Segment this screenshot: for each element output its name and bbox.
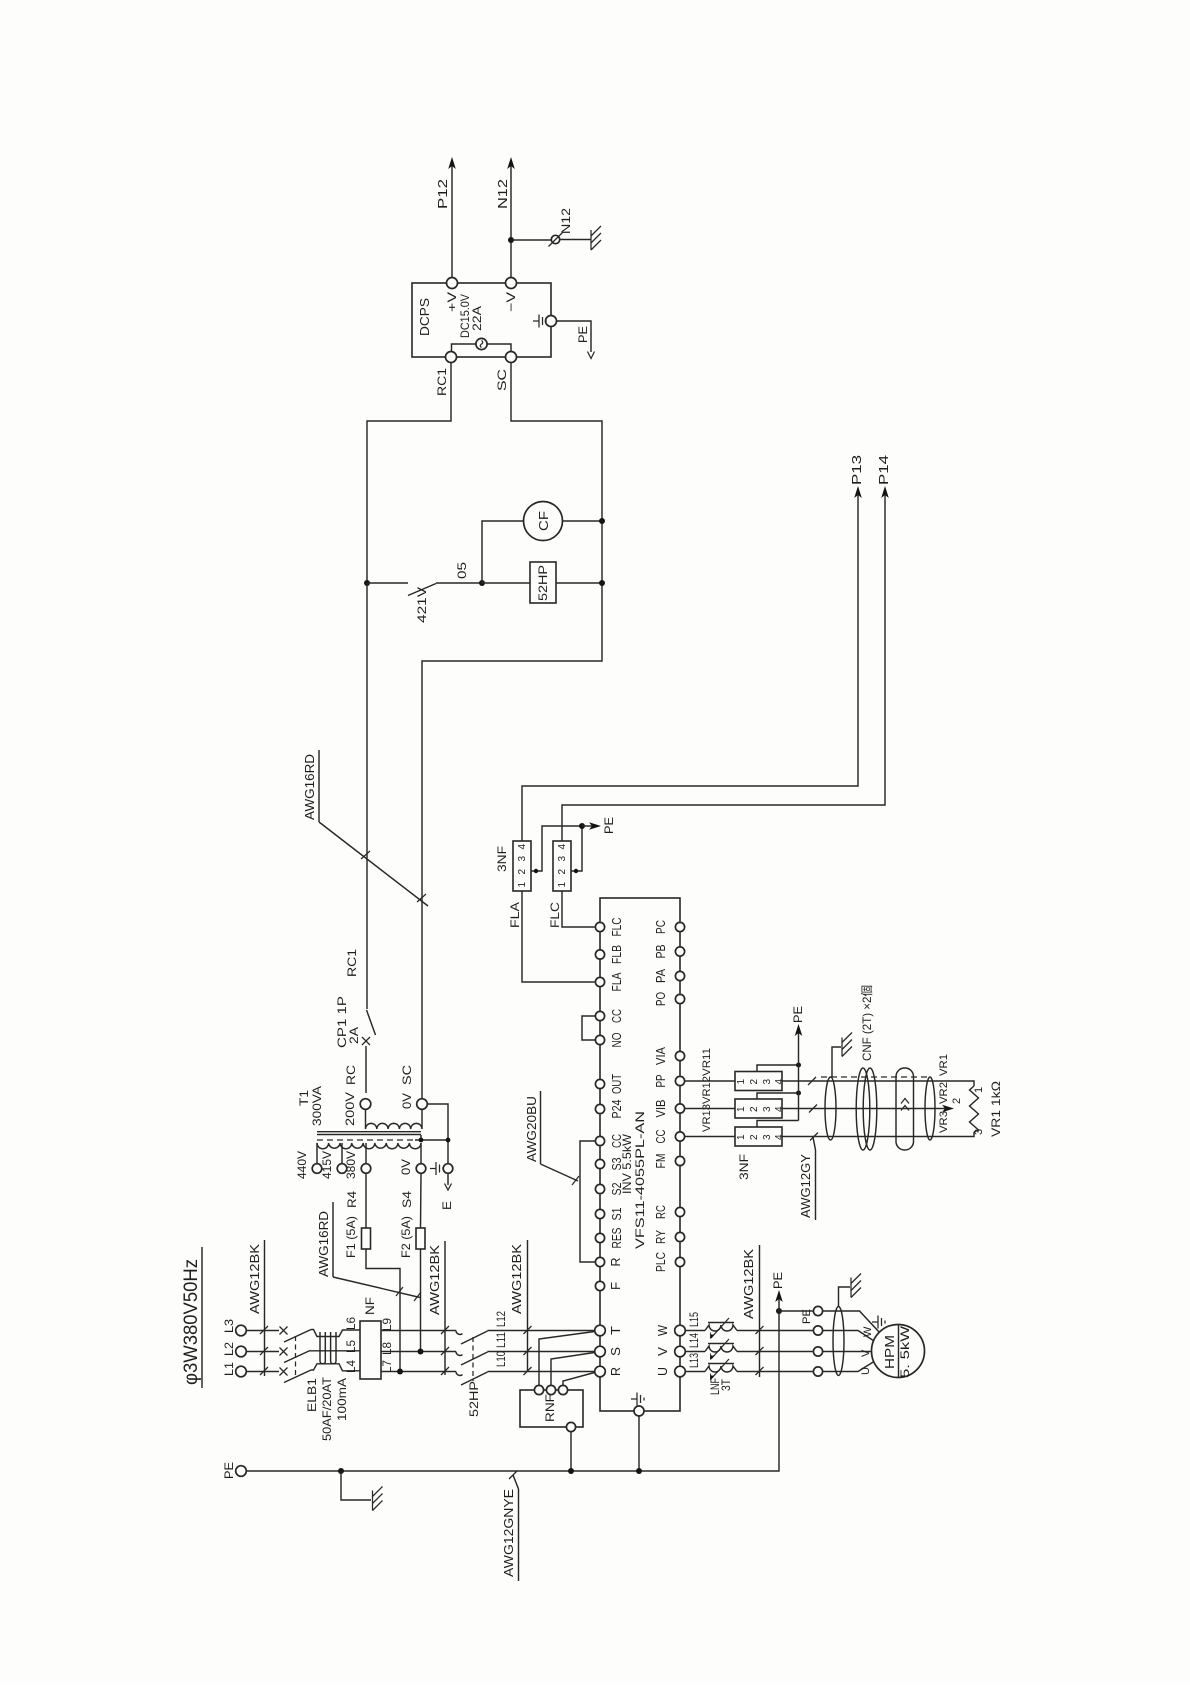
junction on N12 wire bbox=[508, 237, 514, 243]
RNF terminal 3 bbox=[558, 1385, 567, 1394]
terminal block 3NF VR13 bbox=[735, 1127, 785, 1180]
wire L9 NF to contactor bbox=[381, 1330, 456, 1332]
terminal block 3NF VR11 bbox=[735, 1072, 785, 1091]
terminal NO bbox=[595, 1032, 624, 1047]
earth symbol at bus bbox=[373, 1487, 383, 1511]
terminal PLC bbox=[654, 1252, 685, 1272]
earth terminal on DCPS bbox=[533, 315, 557, 328]
svg-text:415V: 415V bbox=[320, 1151, 334, 1179]
terminal PE bbox=[222, 1462, 246, 1479]
terminal S2 bbox=[595, 1182, 624, 1195]
junction RNF ground bbox=[568, 1468, 574, 1474]
ferrite core double ellipse bbox=[856, 1068, 877, 1150]
relay coil 52HP bbox=[530, 562, 556, 603]
inductor LNF phase W bbox=[705, 1318, 737, 1339]
wire FLA to inverter bbox=[508, 891, 595, 982]
svg-text:φ3W380V50Hz: φ3W380V50Hz bbox=[181, 1259, 202, 1385]
wire LNF to motor terminal W bbox=[737, 1330, 813, 1332]
svg-text:3: 3 bbox=[762, 1079, 773, 1085]
terminal PC bbox=[654, 920, 685, 934]
wire U to LNF bbox=[685, 1371, 705, 1373]
wire L2 to breaker bbox=[246, 1351, 279, 1353]
svg-text:L6: L6 bbox=[344, 1317, 358, 1330]
pin2 hook FLC block bbox=[571, 826, 582, 873]
wire label AWG16RD upper bbox=[302, 750, 428, 906]
junction tap R4 on L7 bbox=[397, 1369, 403, 1375]
terminal SC bbox=[495, 352, 517, 392]
tap 0V primary bbox=[399, 1159, 426, 1175]
earth branch wire bbox=[341, 1471, 371, 1500]
RNF ground terminal bbox=[566, 1422, 575, 1471]
svg-text:P12: P12 bbox=[435, 179, 450, 209]
svg-text:VFS11-4055PL-AN: VFS11-4055PL-AN bbox=[633, 1111, 647, 1249]
wire node to 52HP coil bbox=[482, 582, 530, 584]
wire VR3 bbox=[782, 1132, 974, 1137]
svg-text:S2: S2 bbox=[610, 1182, 624, 1195]
primary winding bbox=[317, 1143, 421, 1149]
svg-text:CC: CC bbox=[654, 1130, 668, 1144]
svg-text:P14: P14 bbox=[876, 455, 891, 485]
svg-text:N12: N12 bbox=[559, 208, 573, 234]
svg-text:SC: SC bbox=[495, 369, 509, 391]
terminal PA bbox=[654, 968, 685, 983]
svg-text:FLA: FLA bbox=[508, 902, 522, 928]
PE drop wire with junction bbox=[776, 1308, 813, 1314]
wire L1 to breaker bbox=[246, 1371, 279, 1373]
svg-text:P24: P24 bbox=[610, 1099, 624, 1118]
RNF wire to T bbox=[539, 1332, 595, 1386]
svg-text:P13: P13 bbox=[849, 455, 864, 485]
terminal R power bbox=[595, 1366, 623, 1377]
pin2 hook block VR12 bbox=[757, 1091, 801, 1100]
junction earth branch bbox=[338, 1468, 344, 1474]
svg-text:2: 2 bbox=[557, 869, 568, 875]
terminal L1 bbox=[222, 1362, 246, 1377]
wire L2 through CT bbox=[310, 1350, 360, 1352]
svg-text:S4: S4 bbox=[400, 1191, 414, 1208]
breaker ELB1 pole L2 bbox=[280, 1348, 311, 1363]
svg-text:05: 05 bbox=[455, 562, 469, 579]
SECTION: fan circuit bbox=[364, 502, 605, 624]
svg-text:E: E bbox=[440, 1201, 454, 1210]
svg-text:421V: 421V bbox=[415, 587, 429, 623]
fuse F1 bbox=[344, 1173, 400, 1371]
earth symbol at N12 bbox=[591, 226, 601, 250]
svg-text:FLC: FLC bbox=[610, 918, 624, 937]
breaker linkage dashed bbox=[295, 1336, 297, 1376]
terminal V bbox=[656, 1346, 685, 1357]
shield dashed line bbox=[317, 1139, 415, 1141]
wire label AWG12BK third bbox=[509, 1240, 532, 1375]
svg-text:AWG12BK: AWG12BK bbox=[509, 1244, 524, 1314]
svg-text:CF: CF bbox=[536, 511, 551, 531]
svg-text:380V: 380V bbox=[344, 1151, 358, 1179]
terminal S3 bbox=[595, 1157, 624, 1170]
secondary winding bbox=[366, 1109, 423, 1129]
wire P14 from FLC block pin4 bbox=[562, 455, 891, 841]
terminal RC bbox=[654, 1205, 685, 1219]
radio noise filter RNF box bbox=[520, 1390, 583, 1427]
svg-text:100mA: 100mA bbox=[335, 1378, 349, 1421]
screw terminal N12 bbox=[549, 208, 574, 247]
junction at CF right bbox=[599, 518, 605, 524]
contactor 52HP pole T bbox=[456, 1331, 488, 1345]
svg-text:1: 1 bbox=[736, 1106, 747, 1112]
svg-text:U: U bbox=[656, 1367, 670, 1376]
label ELB1 ratings bbox=[305, 1376, 349, 1441]
junction inverter ground bbox=[636, 1468, 642, 1474]
svg-text:VIB: VIB bbox=[654, 1100, 668, 1118]
terminal PB bbox=[654, 945, 685, 959]
svg-text:0V: 0V bbox=[400, 1093, 414, 1109]
label LNF 3T bbox=[708, 1378, 733, 1395]
RNF terminal 2 bbox=[546, 1385, 555, 1394]
svg-text:3NF: 3NF bbox=[495, 846, 509, 872]
motor terminal V bbox=[813, 1347, 822, 1356]
terminal F bbox=[595, 1281, 623, 1290]
svg-text:2: 2 bbox=[517, 869, 528, 875]
svg-text:VR11: VR11 bbox=[701, 1048, 713, 1076]
svg-text:PB: PB bbox=[654, 945, 668, 959]
wire N12 with arrow bbox=[495, 157, 515, 278]
wire to earth bbox=[560, 239, 591, 241]
wire to N12 screw terminal bbox=[511, 239, 552, 241]
wire label AWG12BK motor bbox=[741, 1245, 764, 1377]
svg-text:3: 3 bbox=[557, 856, 568, 862]
svg-text:NO: NO bbox=[610, 1032, 624, 1047]
noise filter NF box bbox=[360, 1297, 381, 1379]
svg-text:V: V bbox=[656, 1346, 670, 1356]
svg-text:FLC: FLC bbox=[548, 902, 562, 928]
wire L10 to inverter R bbox=[488, 1371, 595, 1373]
SECTION: title bbox=[181, 1247, 202, 1388]
svg-text:L14: L14 bbox=[687, 1333, 701, 1348]
terminal CC analog bbox=[654, 1130, 685, 1144]
PE stub from DCPS earth bbox=[557, 321, 595, 359]
svg-text:ELB1: ELB1 bbox=[305, 1378, 319, 1412]
terminal 0V secondary bbox=[400, 1093, 427, 1109]
svg-text:L8: L8 bbox=[380, 1342, 394, 1355]
svg-text:3: 3 bbox=[517, 856, 528, 862]
svg-text:L12: L12 bbox=[494, 1311, 508, 1327]
svg-text:U: U bbox=[860, 1367, 872, 1375]
svg-text:+V: +V bbox=[445, 292, 459, 312]
label T1 300VA bbox=[297, 1086, 324, 1126]
motor terminal W bbox=[813, 1326, 822, 1335]
wire V into motor bbox=[823, 1351, 872, 1353]
circuit protector CP1 1P 2A bbox=[335, 583, 376, 1093]
earth symbol at motor cable bbox=[851, 1274, 861, 1298]
inductor LNF phase V bbox=[705, 1339, 737, 1360]
RNF wire to S bbox=[551, 1353, 595, 1386]
svg-text:CC: CC bbox=[610, 1134, 624, 1148]
breaker ELB1 pole L1 bbox=[280, 1368, 312, 1383]
svg-text:3NF: 3NF bbox=[737, 1154, 751, 1180]
svg-text:S3: S3 bbox=[610, 1157, 624, 1170]
svg-text:PLC: PLC bbox=[654, 1252, 668, 1272]
svg-text:CC: CC bbox=[610, 1009, 624, 1023]
svg-text:FLB: FLB bbox=[610, 945, 624, 964]
svg-text:AWG12BK: AWG12BK bbox=[741, 1249, 756, 1319]
earth terminal E of inverter bbox=[631, 1393, 644, 1472]
contactor linkage dashed bbox=[472, 1337, 474, 1381]
wire L3 through CT bbox=[311, 1330, 360, 1337]
svg-text:FM: FM bbox=[654, 1154, 668, 1169]
fuse F2 bbox=[399, 1173, 425, 1351]
terminal S bbox=[595, 1346, 623, 1357]
svg-text:L4: L4 bbox=[344, 1360, 358, 1373]
terminal 200V bbox=[343, 1092, 371, 1126]
PE arrow at blocks bbox=[579, 817, 616, 834]
wire P12 with arrow bbox=[435, 157, 456, 278]
node 421V junction bbox=[364, 580, 370, 586]
svg-text:PC: PC bbox=[654, 920, 668, 934]
contactor 52HP pole R bbox=[456, 1372, 488, 1386]
shield dashed drain bbox=[821, 1076, 927, 1078]
svg-text:AWG16RD: AWG16RD bbox=[302, 754, 317, 820]
svg-text:R4: R4 bbox=[345, 1191, 359, 1208]
terminal L2 bbox=[222, 1342, 246, 1357]
wire up to fan CF bbox=[482, 521, 524, 583]
wire LNF to motor terminal U bbox=[737, 1371, 813, 1373]
svg-text:OUT: OUT bbox=[610, 1074, 624, 1094]
svg-text:N12: N12 bbox=[495, 179, 510, 209]
svg-text:VR2: VR2 bbox=[938, 1082, 950, 1104]
earth symbol at cable bbox=[842, 1033, 852, 1057]
terminal W bbox=[656, 1325, 685, 1336]
wire PP to block bbox=[685, 1080, 735, 1082]
svg-text:L11: L11 bbox=[494, 1332, 508, 1348]
motor frame earth symbol bbox=[872, 1316, 885, 1329]
contactor 52HP pole S bbox=[456, 1352, 488, 1366]
wire switch to node bbox=[436, 582, 482, 584]
svg-text:PO: PO bbox=[654, 992, 668, 1006]
svg-text:NF: NF bbox=[363, 1297, 377, 1315]
svg-text:L9: L9 bbox=[380, 1318, 394, 1331]
svg-text:PE: PE bbox=[576, 326, 590, 343]
wire CF to right leg bbox=[563, 520, 603, 522]
svg-text:0V: 0V bbox=[399, 1159, 413, 1175]
terminal -V bbox=[504, 278, 518, 313]
motor terminal PE bbox=[801, 1306, 823, 1324]
wire L3 to breaker bbox=[246, 1330, 279, 1332]
svg-text:RC: RC bbox=[654, 1205, 668, 1219]
shield earth wire bbox=[832, 1047, 841, 1077]
terminal FLB bbox=[595, 945, 624, 964]
svg-text:52HP: 52HP bbox=[536, 565, 550, 601]
terminal OUT bbox=[595, 1074, 624, 1094]
breaker ELB1 pole L3 bbox=[280, 1327, 312, 1343]
svg-text:2: 2 bbox=[749, 1106, 760, 1112]
svg-text:AWG12BK: AWG12BK bbox=[247, 1244, 262, 1314]
inductor LNF phase U bbox=[705, 1359, 737, 1380]
wire 52HP coil to right leg bbox=[556, 582, 602, 584]
wire CC to block bbox=[685, 1136, 735, 1138]
core and shield to earth wire bbox=[415, 1104, 450, 1164]
AC source symbol inside DCPS bbox=[452, 338, 512, 351]
svg-text:VR3: VR3 bbox=[938, 1111, 950, 1133]
svg-text:2: 2 bbox=[749, 1079, 760, 1085]
fan CF bbox=[524, 502, 563, 541]
SECTION: motor bbox=[685, 1245, 924, 1395]
terminal PO bbox=[654, 992, 685, 1006]
svg-text:3: 3 bbox=[762, 1106, 773, 1112]
svg-text:PA: PA bbox=[654, 968, 668, 983]
svg-text:1: 1 bbox=[557, 882, 568, 888]
terminal L3 bbox=[222, 1319, 246, 1336]
wire VR2 to wiper bbox=[782, 1098, 963, 1112]
svg-text:3T: 3T bbox=[719, 1378, 733, 1391]
wire PE into motor bbox=[823, 1311, 880, 1333]
RNF wire to R bbox=[563, 1373, 595, 1386]
PE arrow at bus end bbox=[771, 1272, 785, 1302]
svg-text:300VA: 300VA bbox=[310, 1086, 324, 1126]
wire W to LNF bbox=[685, 1330, 705, 1332]
svg-text:RNF: RNF bbox=[543, 1394, 557, 1422]
SECTION: pot and cable bbox=[685, 985, 1003, 1220]
svg-text:52HP: 52HP bbox=[467, 1381, 481, 1417]
svg-text:L13: L13 bbox=[687, 1353, 701, 1368]
ferrite core stadium bbox=[896, 1068, 914, 1150]
svg-text:22A: 22A bbox=[470, 306, 484, 331]
wire SC down right leg bbox=[422, 363, 602, 1099]
wire FLC to inverter bbox=[548, 891, 595, 928]
SECTION: pe bus bbox=[222, 1272, 785, 1581]
terminal P24 bbox=[595, 1099, 624, 1118]
svg-text:L15: L15 bbox=[687, 1312, 701, 1327]
wire P13 from FLA block pin4 bbox=[522, 455, 864, 841]
svg-text:RC1: RC1 bbox=[435, 368, 449, 396]
terminal R run bbox=[595, 1257, 623, 1266]
wire label AWG16RD lower bbox=[316, 1202, 421, 1301]
terminal block 3NF FLC bbox=[553, 841, 571, 891]
svg-text:3: 3 bbox=[762, 1134, 773, 1140]
svg-text:S: S bbox=[609, 1347, 623, 1356]
terminal +V bbox=[445, 278, 459, 313]
wire L12 to inverter T bbox=[488, 1330, 595, 1332]
pin2 hook block VR13 bbox=[757, 1121, 799, 1128]
wire VIB to block bbox=[685, 1108, 735, 1110]
terminal CC upper bbox=[595, 1009, 624, 1023]
shield earth wire at motor bbox=[839, 1287, 851, 1307]
svg-text:1: 1 bbox=[517, 882, 528, 888]
svg-text:L2: L2 bbox=[222, 1342, 236, 1356]
wire RC1 down to 421V node bbox=[367, 363, 451, 584]
svg-text:F2 (5A): F2 (5A) bbox=[399, 1216, 413, 1258]
terminal FLC bbox=[595, 918, 624, 937]
cable tie oval at motor bbox=[833, 1307, 844, 1376]
terminal VIA bbox=[654, 1046, 685, 1065]
junction tap S4 on L8 bbox=[418, 1349, 424, 1355]
terminal RC1 bbox=[435, 352, 457, 397]
svg-text:4: 4 bbox=[517, 844, 528, 850]
switch contact 421V bbox=[367, 562, 469, 623]
svg-text:L3: L3 bbox=[222, 1319, 236, 1333]
svg-text:FLA: FLA bbox=[610, 972, 624, 992]
tap 380V bbox=[344, 1151, 371, 1179]
svg-text:PE: PE bbox=[801, 1309, 813, 1324]
svg-text:AWG12BK: AWG12BK bbox=[427, 1245, 442, 1315]
wire L7 NF to contactor bbox=[381, 1371, 456, 1373]
svg-text:VIA: VIA bbox=[654, 1046, 668, 1065]
SECTION: dcps bbox=[367, 157, 602, 1099]
wire label AWG12BK second bbox=[427, 1241, 449, 1375]
svg-text:1: 1 bbox=[973, 1087, 985, 1093]
wire L11 to inverter S bbox=[488, 1351, 595, 1353]
terminal FM bbox=[654, 1154, 685, 1169]
SECTION: transformer bbox=[295, 583, 454, 1372]
zero phase CT core bars bbox=[320, 1332, 336, 1364]
terminal FLA bbox=[595, 972, 624, 992]
svg-text:RC: RC bbox=[344, 1065, 358, 1085]
svg-text:−V: −V bbox=[504, 292, 518, 312]
wire L8 NF to contactor bbox=[381, 1351, 456, 1353]
terminal S1 bbox=[595, 1207, 624, 1220]
terminal VIB bbox=[654, 1100, 685, 1118]
svg-text:HPM: HPM bbox=[882, 1335, 897, 1369]
svg-text:AWG16RD: AWG16RD bbox=[316, 1211, 331, 1277]
wire U into motor bbox=[823, 1362, 874, 1372]
wire L1 through CT bbox=[311, 1364, 360, 1371]
wire label AWG12GNYE bbox=[501, 1471, 519, 1581]
svg-text:2: 2 bbox=[951, 1098, 963, 1104]
svg-text:2A: 2A bbox=[347, 1027, 361, 1044]
svg-text:1: 1 bbox=[736, 1079, 747, 1085]
jumper NO to CC bbox=[582, 1016, 595, 1040]
svg-text:F: F bbox=[609, 1282, 623, 1290]
wire VR1 bbox=[782, 1081, 974, 1086]
earth terminal E bbox=[430, 1162, 453, 1175]
svg-text:CNF (2T) ×2個: CNF (2T) ×2個 bbox=[860, 985, 874, 1061]
potentiometer VR1 1k resistor bbox=[970, 1081, 1004, 1137]
svg-text:SC: SC bbox=[400, 1065, 414, 1085]
svg-text:T1: T1 bbox=[297, 1090, 311, 1106]
terminal PP bbox=[654, 1075, 685, 1088]
SECTION: inverter bbox=[524, 898, 685, 1471]
svg-text:L1: L1 bbox=[222, 1362, 236, 1376]
SECTION: input and breaker bbox=[222, 1240, 595, 1471]
svg-text:R: R bbox=[609, 1367, 623, 1376]
tap 440V bbox=[295, 1151, 322, 1179]
power supply DCPS box bbox=[412, 283, 551, 357]
pin2 hook block VR11 bbox=[757, 1063, 801, 1072]
svg-text:440V: 440V bbox=[295, 1151, 309, 1179]
PE bus of shield with arrow bbox=[791, 1006, 805, 1121]
svg-text:RES: RES bbox=[610, 1228, 624, 1249]
cable tie oval left bbox=[825, 1077, 836, 1140]
E arrow bbox=[440, 1173, 454, 1210]
svg-text:PE: PE bbox=[791, 1006, 805, 1023]
terminal block 3NF FLA bbox=[495, 841, 531, 891]
terminal RES bbox=[595, 1228, 624, 1249]
svg-text:50AF/20AT: 50AF/20AT bbox=[320, 1376, 334, 1441]
svg-text:VR13: VR13 bbox=[701, 1104, 713, 1132]
jumper R to CC bbox=[580, 1141, 595, 1262]
terminal block 3NF VR12 bbox=[735, 1099, 785, 1118]
svg-text:VR12: VR12 bbox=[701, 1076, 713, 1104]
svg-text:3: 3 bbox=[973, 1129, 985, 1135]
wire label AWG12BK input bbox=[247, 1240, 268, 1376]
svg-text:L5: L5 bbox=[344, 1340, 358, 1353]
svg-text:W: W bbox=[656, 1325, 670, 1336]
motor HPM 5.5kW bbox=[872, 1325, 925, 1379]
inverter INV box bbox=[600, 898, 680, 1411]
svg-text:1: 1 bbox=[736, 1134, 747, 1140]
wire V to LNF bbox=[685, 1351, 705, 1353]
svg-text:PE: PE bbox=[771, 1272, 785, 1289]
pin2 hook FLA block bbox=[531, 826, 582, 873]
wire W into motor bbox=[823, 1331, 874, 1342]
